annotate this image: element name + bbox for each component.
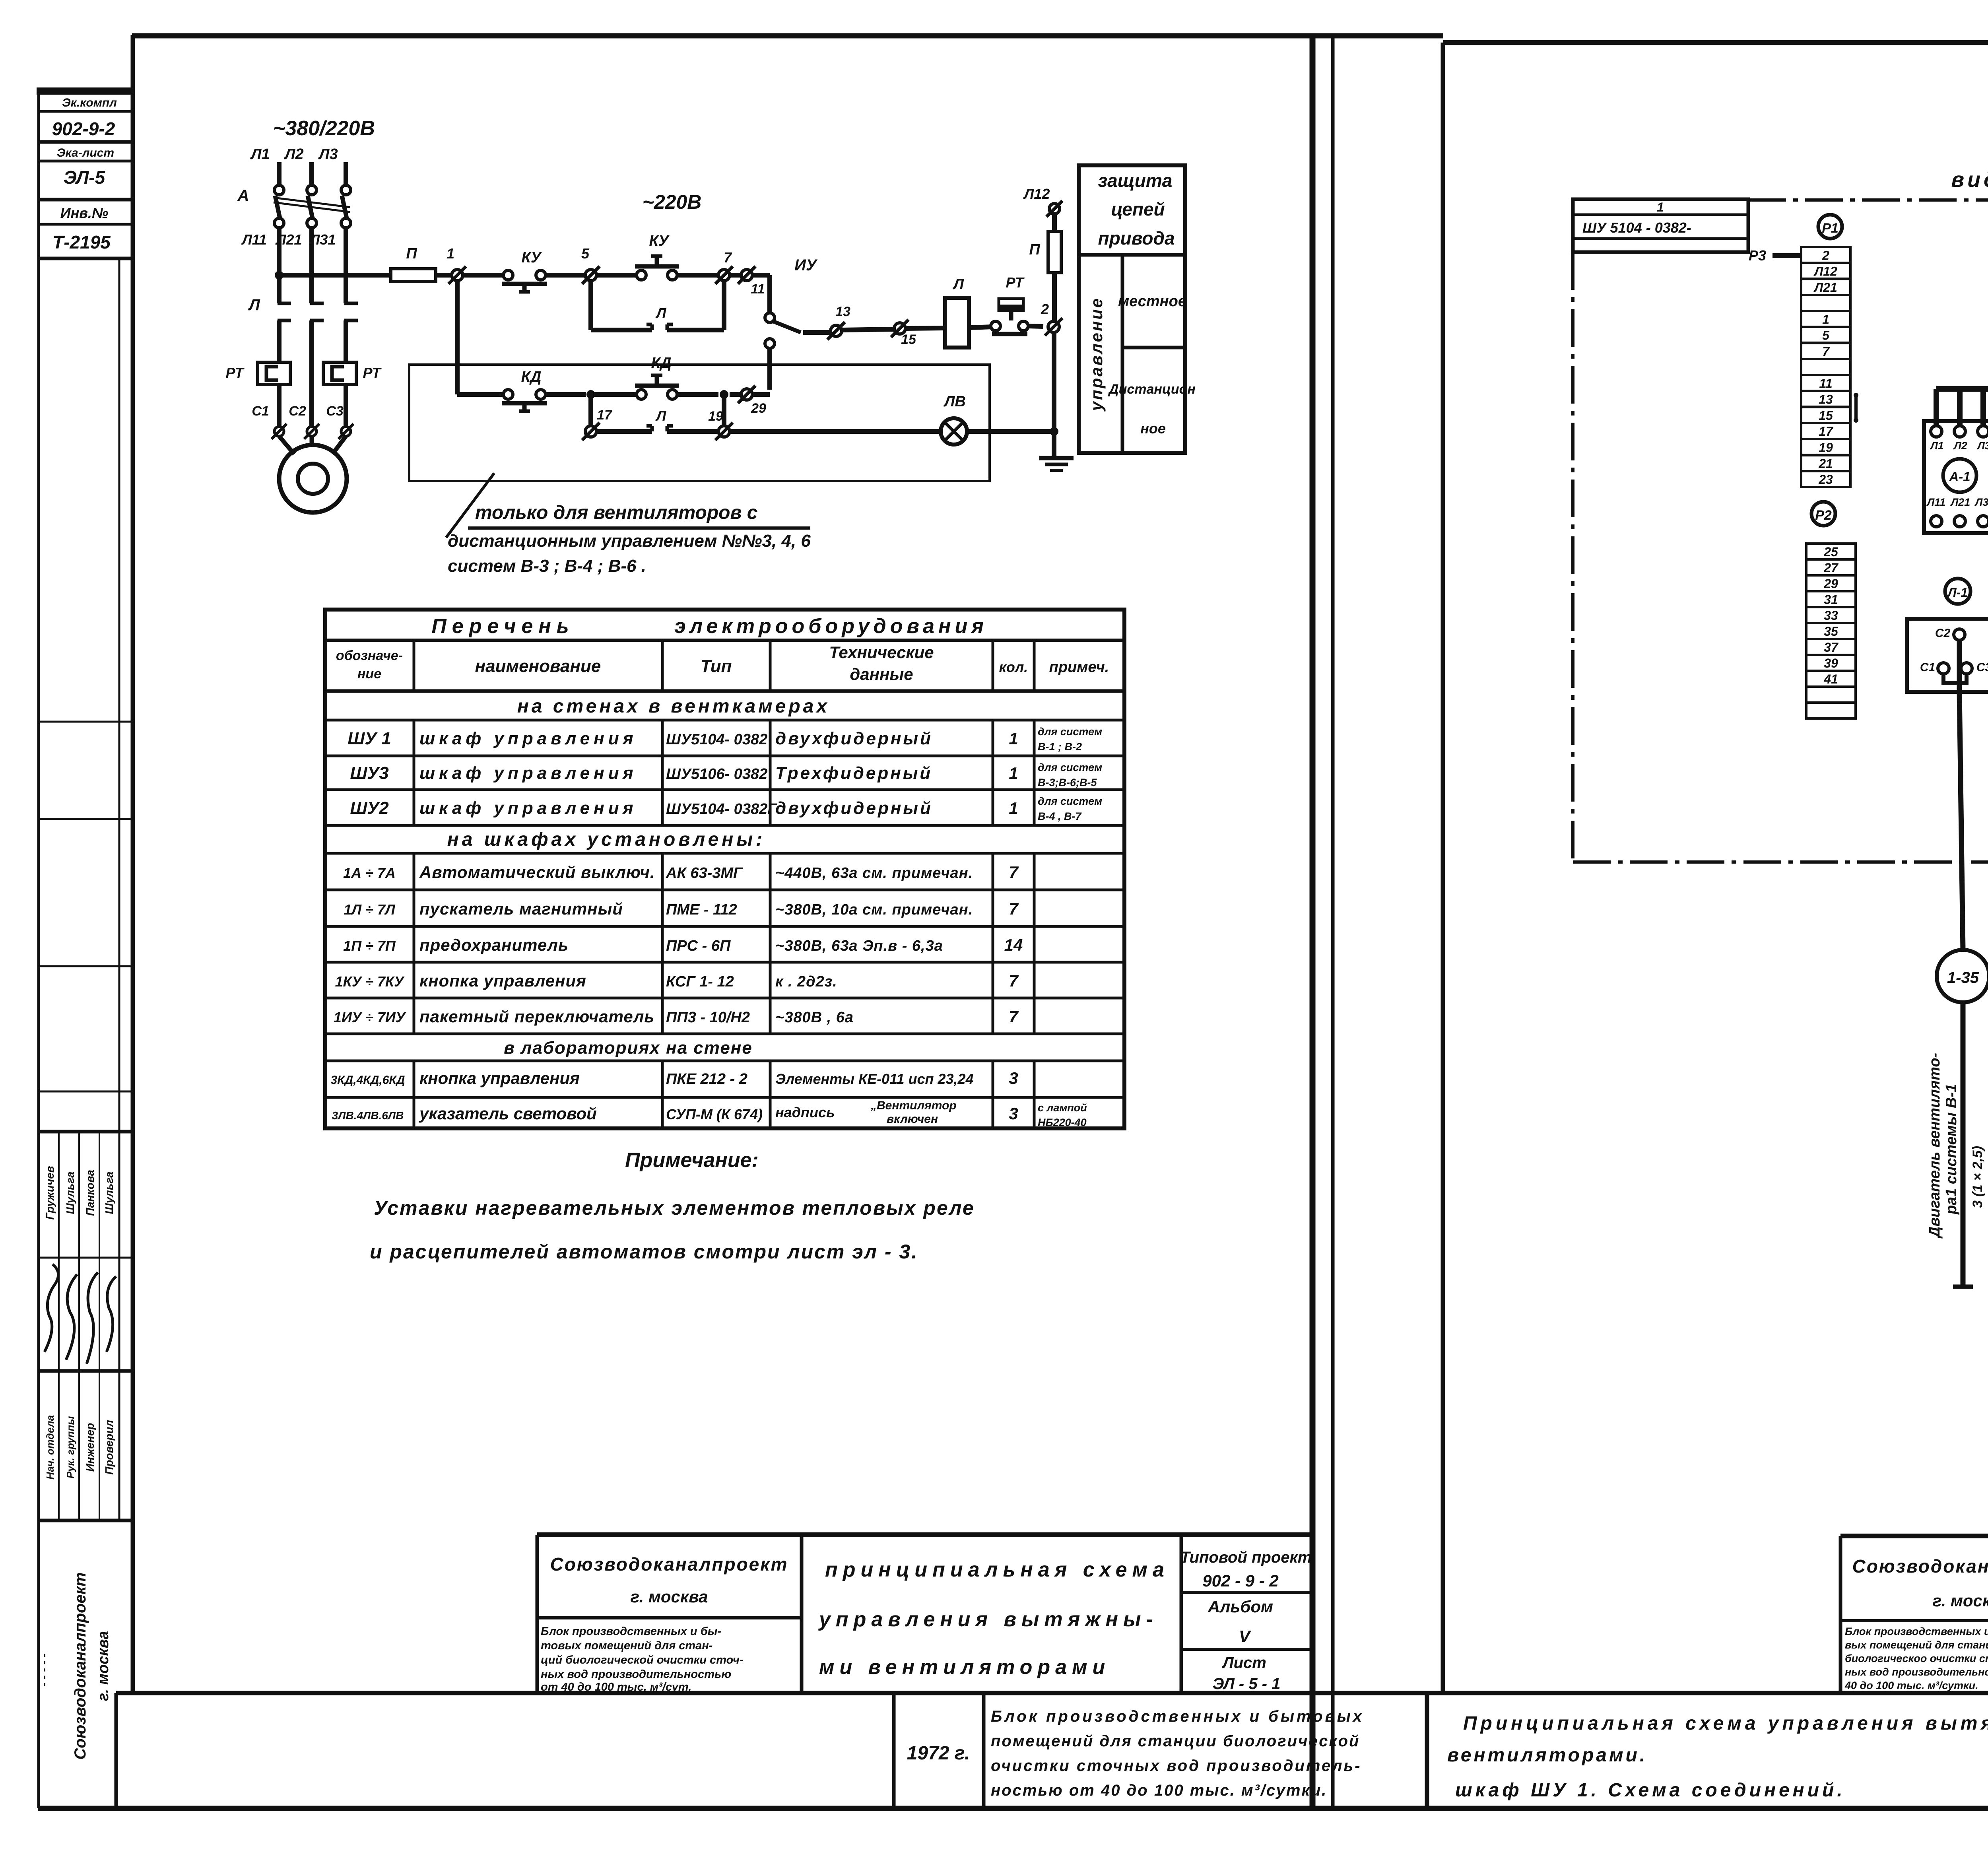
cabinet label box ShU5104-0382 (1573, 199, 1748, 252)
svg-text:ние: ние (357, 666, 381, 682)
svg-text:3 (1 × 2,5): 3 (1 × 2,5) (1970, 1146, 1985, 1208)
svg-text:1: 1 (1822, 312, 1829, 326)
svg-text:ШУ 1: ШУ 1 (348, 729, 391, 748)
svg-text:С2: С2 (1935, 627, 1951, 640)
svg-text:С2: С2 (289, 404, 306, 419)
contactor L-1 circle label (1945, 579, 1971, 604)
equipment table section: installed on cabinets (325, 852, 1124, 855)
svg-text:11: 11 (751, 282, 765, 297)
supply bus wire (1936, 386, 1988, 392)
node 7 (718, 270, 730, 281)
svg-text:1ИУ ÷ 7ИУ: 1ИУ ÷ 7ИУ (334, 1009, 406, 1025)
svg-text:7: 7 (1009, 863, 1019, 882)
svg-text:А-1: А-1 (1949, 469, 1970, 484)
svg-text:КСГ 1- 12: КСГ 1- 12 (666, 973, 734, 990)
wire node2 to ground (1052, 332, 1056, 457)
bottom band frame (116, 1691, 1988, 1695)
svg-text:для систем: для систем (1038, 761, 1102, 773)
cable circle 1-35 (1937, 950, 1988, 1002)
svg-text:Л21: Л21 (1950, 496, 1971, 508)
breaker A poles (274, 185, 284, 195)
node 1 (452, 270, 463, 281)
svg-text:надпись: надпись (775, 1104, 835, 1120)
svg-text:Л11: Л11 (241, 231, 267, 248)
svg-text:Т-2195: Т-2195 (52, 232, 111, 252)
holding contact branch with L (588, 281, 593, 330)
svg-text:Примечание:: Примечание: (625, 1149, 759, 1172)
svg-text:ШУ 5104 - 0382-: ШУ 5104 - 0382- (1582, 219, 1691, 236)
svg-text:~380В , 6а: ~380В , 6а (775, 1009, 854, 1026)
svg-text:- - - - -: - - - - - (37, 1653, 50, 1686)
left sheet frame (132, 33, 1443, 39)
svg-text:РТ: РТ (363, 365, 382, 381)
svg-text:~440В, 63а см. примечан.: ~440В, 63а см. примечан. (775, 865, 973, 882)
svg-text:пакетный переключатель: пакетный переключатель (419, 1007, 654, 1026)
svg-text:39: 39 (1824, 656, 1838, 670)
svg-text:Автоматический выключ.: Автоматический выключ. (419, 863, 655, 882)
svg-text:Панкова: Панкова (84, 1170, 96, 1216)
svg-text:В-1 ; В-2: В-1 ; В-2 (1038, 741, 1082, 753)
selector switch IU (767, 275, 772, 313)
svg-text:защита: защита (1098, 170, 1173, 191)
svg-text:ПМЕ - 112: ПМЕ - 112 (666, 901, 737, 918)
phase lead L3 (344, 162, 348, 185)
junction 19-branch (720, 390, 728, 399)
svg-text:25: 25 (1823, 545, 1839, 559)
svg-text:3ЛВ.4ЛВ.6ЛВ: 3ЛВ.4ЛВ.6ЛВ (332, 1109, 404, 1122)
svg-text:вид спереди: вид спереди (1951, 168, 1988, 192)
svg-text:примеч.: примеч. (1049, 659, 1109, 676)
control feed wire (279, 273, 391, 278)
terminal L12 (1049, 204, 1060, 214)
svg-text:биологическоо очистки сточ: биологическоо очистки сточ- (1845, 1652, 1988, 1664)
svg-text:Типовой проект: Типовой проект (1180, 1549, 1312, 1566)
svg-text:вых помещений для станций: вых помещений для станций (1845, 1639, 1988, 1651)
equipment table rows: apparatus (325, 889, 1124, 891)
node 2 (1048, 321, 1059, 332)
junction 17-branch (586, 390, 595, 399)
stop button KU (503, 270, 513, 280)
svg-text:ШУ5106- 0382: ШУ5106- 0382 (666, 766, 767, 782)
svg-text:ций биологической очистки с: ций биологической очистки сточ- (541, 1654, 744, 1666)
contactor coil L (945, 298, 969, 348)
svg-text:РТ: РТ (226, 365, 245, 381)
classification box local cell (1122, 346, 1185, 349)
svg-text:Р2: Р2 (1815, 508, 1832, 523)
svg-text:Эк.компл: Эк.компл (62, 96, 117, 109)
svg-text:Элементы КЕ-011 исп 23,24: Элементы КЕ-011 исп 23,24 (775, 1071, 974, 1087)
svg-text:1: 1 (1009, 764, 1018, 782)
equipment table rows: laboratory (325, 1096, 1124, 1099)
equipment table section: on walls (325, 719, 1124, 722)
svg-text:г. москва: г. москва (631, 1587, 708, 1606)
svg-text:Л1: Л1 (1930, 440, 1944, 452)
svg-text:ных вод производительностью от: ных вод производительностью от (1845, 1666, 1988, 1678)
svg-text:Л21: Л21 (1813, 280, 1837, 295)
phase lead L1 (277, 162, 282, 185)
svg-text:40 до 100 тыс. м³/сутки.: 40 до 100 тыс. м³/сутки. (1844, 1680, 1978, 1691)
node 29 (741, 389, 752, 400)
svg-text:от 40 до 100 тыс. м³/сут.: от 40 до 100 тыс. м³/сут. (541, 1681, 691, 1693)
svg-text:кол.: кол. (999, 659, 1028, 675)
node 5 (585, 270, 596, 281)
svg-text:29: 29 (751, 401, 766, 416)
svg-text:7: 7 (1009, 899, 1019, 918)
svg-text:37: 37 (1824, 640, 1839, 654)
cable line 1 (1961, 1002, 1966, 1287)
ground symbol (1039, 456, 1074, 460)
svg-text:3: 3 (1009, 1104, 1018, 1123)
svg-text:7: 7 (1822, 344, 1830, 359)
svg-text:ПП3 - 10/Н2: ПП3 - 10/Н2 (666, 1009, 750, 1026)
svg-text:~220В: ~220В (643, 191, 702, 213)
svg-text:27: 27 (1823, 561, 1839, 575)
svg-text:„Вентилятор: „Вентилятор (870, 1099, 957, 1112)
terminal block P1 strip (1801, 247, 1850, 263)
fuse P horizontal (391, 269, 436, 282)
svg-text:Л1: Л1 (250, 146, 270, 163)
svg-text:1: 1 (447, 245, 454, 262)
svg-text:1КУ ÷ 7КУ: 1КУ ÷ 7КУ (335, 973, 405, 990)
svg-text:для систем: для систем (1038, 795, 1102, 807)
start button KU (637, 270, 646, 280)
svg-text:Шульга: Шульга (64, 1171, 76, 1214)
left title block org cell (537, 1616, 802, 1619)
svg-text:3: 3 (1009, 1069, 1018, 1087)
svg-text:систем В-3 ; В-4 ; В-6 .: систем В-3 ; В-4 ; В-6 . (448, 556, 646, 576)
svg-text:Л12: Л12 (1813, 264, 1837, 279)
local control line to coil (803, 330, 831, 335)
svg-text:~380В, 63а Эп.в - 6,3а: ~380В, 63а Эп.в - 6,3а (775, 938, 943, 954)
right title block frame (1840, 1534, 1988, 1538)
classification box frame (1079, 165, 1185, 453)
svg-text:~380В, 10а см. примечан.: ~380В, 10а см. примечан. (775, 901, 973, 918)
svg-text:ШУ2: ШУ2 (350, 798, 389, 818)
svg-text:ЭЛ - 5 - 1: ЭЛ - 5 - 1 (1213, 1675, 1281, 1693)
fuse P vertical (1052, 214, 1057, 231)
svg-text:ШУ3: ШУ3 (350, 763, 388, 783)
thermal element RT pole1 (258, 362, 290, 384)
svg-text:принципиальная схема: принципиальная схема (825, 1558, 1169, 1581)
svg-text:в лабораториях на стен: в лабораториях на стене (504, 1038, 753, 1058)
svg-text:Союзводоканалпроект: Союзводоканалпроект (1852, 1556, 1988, 1577)
svg-text:V: V (1239, 1627, 1251, 1646)
svg-text:2: 2 (1822, 248, 1829, 262)
svg-text:Союзводоканалпроект: Союзводоканалпроект (72, 1572, 89, 1759)
svg-text:902-9-2: 902-9-2 (52, 118, 115, 139)
svg-text:31: 31 (1824, 592, 1838, 607)
stamp middle empty rows (38, 721, 132, 723)
svg-text:данные: данные (850, 665, 913, 683)
svg-text:Перечень: Перечень (431, 615, 574, 638)
svg-text:кнопка управления: кнопка управления (419, 971, 586, 990)
svg-text:очистки сточных вод произво: очистки сточных вод производитель- (991, 1757, 1362, 1775)
equipment table header row (325, 689, 1124, 693)
svg-text:Л11: Л11 (1926, 496, 1946, 508)
svg-text:23: 23 (1818, 472, 1833, 487)
svg-text:шкаф управления: шкаф управления (419, 798, 637, 818)
A-1 feed wires (1934, 389, 1939, 426)
classification box control column (1121, 255, 1124, 453)
svg-text:1972 г.: 1972 г. (907, 1743, 970, 1764)
svg-text:местное: местное (1118, 293, 1186, 310)
svg-text:шкаф управления: шкаф управления (419, 729, 637, 748)
svg-text:вентиляторами.: вентиляторами. (1447, 1745, 1647, 1766)
stamp column verticals (37, 90, 40, 1808)
svg-text:Рук. группы: Рук. группы (64, 1416, 76, 1479)
svg-text:35: 35 (1824, 624, 1839, 639)
svg-text:ных вод производительностью: ных вод производительностью (541, 1668, 731, 1681)
svg-text:Принципиальная схема упра: Принципиальная схема управления вытяжным… (1463, 1713, 1988, 1734)
svg-text:Л3: Л3 (1976, 440, 1988, 452)
svg-text:ми вентиляторами: ми вентиляторами (819, 1656, 1110, 1679)
svg-text:Технические: Технические (829, 643, 934, 662)
svg-text:1А ÷ 7А: 1А ÷ 7А (343, 865, 396, 881)
svg-text:15: 15 (901, 332, 916, 347)
svg-text:к . 2д2з.: к . 2д2з. (775, 973, 837, 990)
remote start button KD (637, 390, 646, 399)
svg-text:С3: С3 (326, 404, 344, 419)
svg-text:ШУ5104- 0382: ШУ5104- 0382 (666, 731, 767, 748)
svg-text:КУ: КУ (649, 233, 670, 249)
svg-text:ИУ: ИУ (794, 256, 818, 274)
wire lamp to ground bus (967, 429, 1054, 434)
svg-text:19: 19 (708, 409, 723, 424)
svg-text:Дистанцион: Дистанцион (1108, 382, 1196, 397)
svg-text:обозначе-: обозначе- (336, 648, 403, 663)
svg-text:шкаф управления: шкаф управления (419, 763, 637, 783)
svg-text:14: 14 (1004, 936, 1023, 954)
svg-text:33: 33 (1824, 608, 1838, 623)
svg-text:ШУ5104- 0382Г: ШУ5104- 0382Г (666, 801, 777, 817)
motor M (279, 445, 347, 513)
control tap junction (275, 271, 283, 280)
right sheet frame (1443, 40, 1988, 45)
terminal block P2 circle (1811, 502, 1835, 526)
svg-text:41: 41 (1823, 672, 1838, 686)
svg-text:3КД,4КД,6КД: 3КД,4КД,6КД (330, 1074, 405, 1087)
pole wires upper (277, 228, 282, 303)
svg-text:~380/220В: ~380/220В (273, 117, 375, 140)
svg-text:В-3;В-6;В-5: В-3;В-6;В-5 (1038, 777, 1097, 788)
wire L-1 to cable 1-35 (1959, 692, 1963, 950)
svg-text:пускатель магнитный: пускатель магнитный (419, 899, 623, 918)
lamp branch contact L (596, 429, 652, 434)
svg-text:КД: КД (651, 355, 672, 371)
phase lead L2 (309, 162, 314, 185)
svg-text:ПРС - 6П: ПРС - 6П (666, 938, 731, 954)
node 13 (831, 325, 842, 336)
thermal element RT pole3 (323, 362, 356, 384)
svg-text:Эка-лист: Эка-лист (57, 146, 114, 159)
svg-text:5: 5 (581, 245, 590, 262)
svg-text:указатель световой: указатель световой (419, 1104, 597, 1123)
motor cable terminals (274, 427, 284, 436)
svg-text:5: 5 (1822, 328, 1830, 343)
svg-text:Л: Л (655, 305, 667, 321)
svg-text:1: 1 (1657, 200, 1664, 214)
contactor L main contacts (278, 302, 291, 305)
svg-text:Л31: Л31 (1974, 496, 1988, 508)
equipment table section: in laboratories (325, 1060, 1124, 1062)
svg-text:15: 15 (1819, 408, 1833, 423)
svg-text:17: 17 (597, 408, 613, 423)
svg-text:7: 7 (1009, 1007, 1019, 1026)
svg-text:г. москва: г. москва (95, 1631, 112, 1701)
svg-text:29: 29 (1823, 577, 1838, 591)
right title block org cell (1840, 1619, 1988, 1622)
svg-text:привода: привода (1098, 228, 1175, 249)
svg-text:1: 1 (1009, 799, 1018, 817)
cabinet dash-dot outline (1748, 198, 1988, 202)
svg-text:19: 19 (1819, 441, 1833, 455)
bottom band cell dividers (892, 1693, 896, 1808)
svg-text:ра1 системы В-1: ра1 системы В-1 (1943, 1084, 1960, 1215)
svg-text:Инв.№: Инв.№ (60, 205, 109, 221)
svg-text:Гружичев: Гружичев (44, 1166, 56, 1219)
svg-text:ностью от 40 до 100 тыс.: ностью от 40 до 100 тыс. м³/сутки. (991, 1782, 1327, 1799)
svg-text:21: 21 (1818, 456, 1833, 471)
svg-text:предохранитель: предохранитель (419, 936, 569, 954)
svg-text:1П ÷ 7П: 1П ÷ 7П (343, 938, 396, 954)
svg-text:Альбом: Альбом (1208, 1597, 1273, 1616)
svg-text:кнопка управления: кнопка управления (419, 1069, 580, 1087)
svg-text:СУП-М (К 674): СУП-М (К 674) (666, 1106, 763, 1122)
stamp top boxes (37, 87, 132, 95)
terminal block P1 circle (1818, 215, 1842, 239)
svg-text:В-4 , В-7: В-4 , В-7 (1038, 810, 1082, 822)
svg-text:Л2: Л2 (1953, 440, 1967, 452)
svg-text:Л: Л (655, 408, 667, 424)
thermal relay contact RT (999, 299, 1023, 311)
svg-text:помещений для станции биоло: помещений для станции биологической (991, 1732, 1360, 1750)
svg-text:Л3: Л3 (318, 146, 338, 163)
svg-text:товых помещений для стан-: товых помещений для стан- (541, 1639, 712, 1652)
leader line (446, 473, 494, 538)
svg-text:13: 13 (1819, 392, 1833, 407)
signal lamp LV (941, 418, 967, 445)
svg-text:ПКЕ 212 - 2: ПКЕ 212 - 2 (666, 1071, 747, 1087)
svg-text:АК 63-3МГ: АК 63-3МГ (666, 865, 743, 882)
svg-text:только для вентиляторов с: только для вентиляторов с (475, 502, 757, 523)
svg-text:электрооборудования: электрооборудования (674, 615, 988, 638)
svg-text:7: 7 (1009, 971, 1019, 990)
svg-text:Р1: Р1 (1822, 221, 1839, 236)
svg-text:КУ: КУ (521, 249, 542, 266)
svg-text:дистанционным управлением №: дистанционным управлением №№3, 4, 6 (448, 531, 811, 551)
svg-text:7: 7 (724, 249, 732, 266)
svg-text:ное: ное (1140, 420, 1166, 437)
svg-text:шкаф ШУ 1. Схема соеди: шкаф ШУ 1. Схема соединений. (1455, 1780, 1846, 1801)
svg-text:Уставки нагревательных э: Уставки нагревательных элементов тепловы… (374, 1197, 975, 1219)
motor leads (279, 436, 294, 454)
svg-text:на стенах в венткамер: на стенах в венткамерах (517, 696, 830, 717)
svg-text:с лампой: с лампой (1038, 1102, 1087, 1114)
svg-text:Л: Л (248, 296, 260, 314)
svg-text:П: П (406, 245, 417, 262)
svg-text:Трехфидерный: Трехфидерный (775, 763, 932, 783)
svg-text:и расцепителей автоматов: и расцепителей автоматов смотри лист эл … (370, 1241, 918, 1263)
svg-text:П: П (1029, 241, 1040, 258)
svg-text:г. москва: г. москва (1933, 1591, 1988, 1610)
svg-text:Л12: Л12 (1023, 186, 1050, 202)
automat A-1 box (1924, 421, 1988, 533)
svg-text:включен: включен (887, 1113, 938, 1126)
lamp branch vertical 19 (722, 394, 726, 426)
svg-text:на шкафах установлены:: на шкафах установлены: (447, 829, 765, 850)
equipment table rows: cabinets (325, 755, 1124, 757)
svg-text:Тип: Тип (701, 656, 732, 676)
svg-text:С1: С1 (1920, 661, 1935, 674)
svg-text:1: 1 (1009, 729, 1018, 748)
svg-text:1-35: 1-35 (1947, 969, 1979, 986)
svg-text:Л-1: Л-1 (1947, 585, 1968, 600)
remote branch vertical from node 1 (455, 281, 460, 394)
svg-text:РТ: РТ (1006, 274, 1025, 291)
svg-text:наименование: наименование (475, 656, 601, 676)
remote option thin box (409, 365, 990, 481)
terminal P1 jumper 13-15 (1854, 394, 1858, 421)
svg-text:НБ220-40: НБ220-40 (1038, 1116, 1087, 1128)
svg-text:Блок производственных и б: Блок производственных и бытовых (991, 1708, 1364, 1725)
svg-text:двухфидерный: двухфидерный (775, 729, 933, 748)
terminal block P2 strip (1806, 544, 1856, 559)
svg-text:управления вытяжны-: управления вытяжны- (818, 1608, 1158, 1631)
svg-text:ЛВ: ЛВ (943, 393, 966, 410)
equipment table outer frame (325, 610, 1124, 1128)
svg-text:13: 13 (835, 304, 850, 319)
svg-text:для систем: для систем (1038, 726, 1102, 738)
svg-text:1Л ÷ 7Л: 1Л ÷ 7Л (344, 901, 396, 918)
svg-text:Лист: Лист (1221, 1654, 1266, 1672)
pole wires lower (277, 384, 282, 427)
svg-text:С3: С3 (1976, 661, 1988, 674)
remote stop button KD (457, 392, 503, 397)
svg-text:Л: Л (952, 276, 964, 293)
svg-text:Инженер: Инженер (84, 1423, 96, 1472)
svg-text:Блок производственных и бы: Блок производственных и быто- (1845, 1625, 1988, 1637)
svg-text:КД: КД (521, 369, 542, 385)
equipment table title row (325, 639, 1124, 642)
svg-text:управление: управление (1087, 297, 1106, 412)
contactor L-1 box (1907, 619, 1988, 692)
svg-text:Двигатель вентилято-: Двигатель вентилято- (1926, 1053, 1943, 1239)
svg-text:17: 17 (1819, 424, 1834, 439)
left title block frame (537, 1532, 1312, 1537)
svg-text:ЭЛ-5: ЭЛ-5 (64, 167, 106, 188)
stamp signature table (38, 1130, 132, 1134)
svg-text:цепей: цепей (1111, 199, 1165, 219)
svg-text:двухфидерный: двухфидерный (775, 798, 933, 818)
lamp branch vertical 17 (588, 394, 593, 426)
svg-text:Р3: Р3 (1749, 247, 1766, 264)
svg-text:С1: С1 (252, 404, 269, 419)
left title block project column (1181, 1591, 1312, 1594)
classification box protection cell (1079, 253, 1185, 257)
svg-text:Проверил: Проверил (103, 1420, 115, 1475)
svg-text:902 - 9 - 2: 902 - 9 - 2 (1202, 1571, 1278, 1590)
node 11 (741, 270, 752, 281)
svg-text:Союзводоканалпроект: Союзводоканалпроект (550, 1554, 788, 1575)
svg-text:Блок производственных и бы: Блок производственных и бы- (541, 1625, 721, 1638)
svg-text:Л2: Л2 (283, 146, 303, 163)
svg-text:11: 11 (1819, 376, 1832, 390)
svg-text:Нач. отдела: Нач. отдела (44, 1415, 56, 1480)
svg-text:А: А (237, 187, 249, 204)
node 15 (894, 323, 905, 334)
svg-text:2: 2 (1041, 301, 1049, 317)
svg-text:Шульга: Шульга (103, 1171, 115, 1214)
